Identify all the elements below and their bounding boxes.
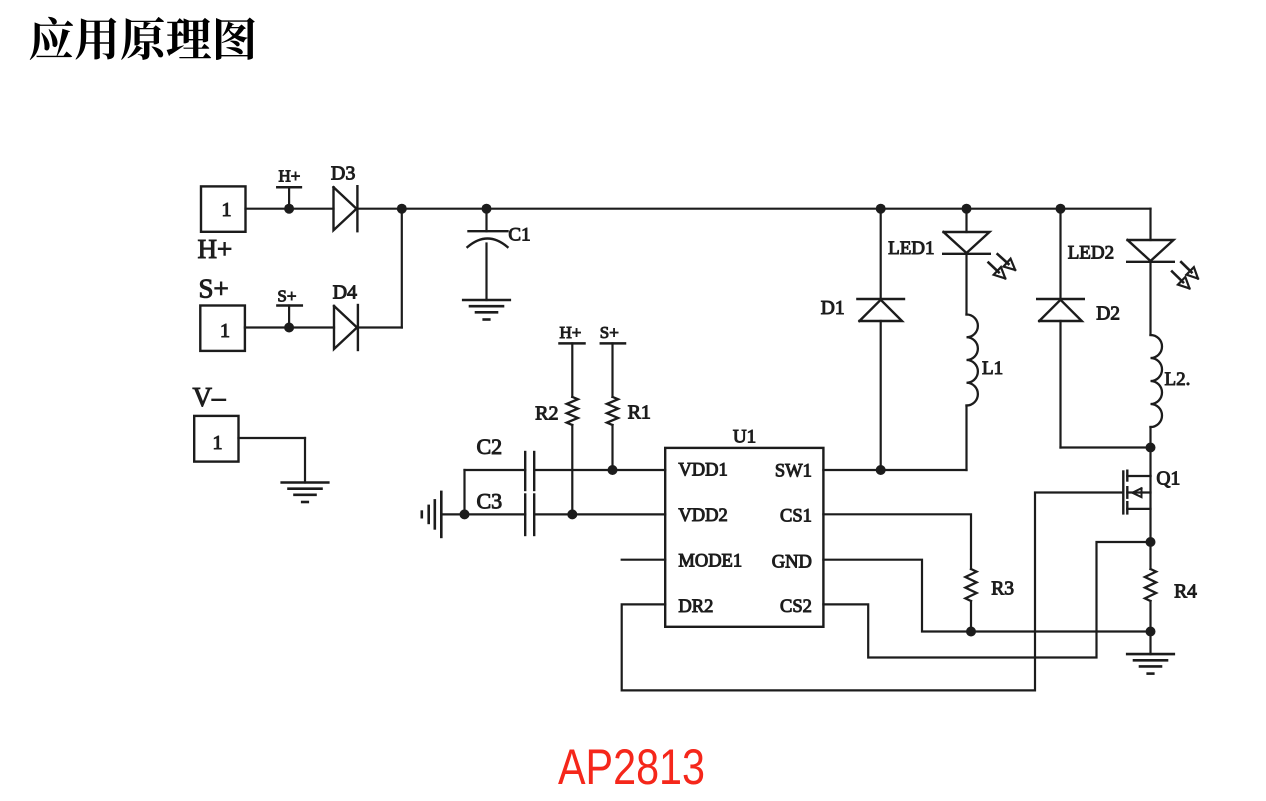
junction dot SW1/D1 — [876, 465, 886, 475]
wire gnd to C3 — [441, 513, 525, 515]
junction dot R3/GND rail — [966, 627, 976, 637]
svg-text:D2: D2 — [1096, 303, 1120, 324]
wire H+ box to D3 — [246, 208, 334, 210]
svg-text:CS2: CS2 — [780, 597, 812, 617]
net label H+ — [279, 166, 301, 185]
wire S+ box to D4 — [245, 326, 334, 328]
LED LED1 — [943, 232, 990, 254]
svg-text:S+: S+ — [600, 323, 619, 342]
svg-text:DR2: DR2 — [678, 597, 713, 617]
wire D4 to vertical — [359, 326, 402, 328]
svg-text:U1: U1 — [733, 427, 756, 448]
wire vertical D3/D4 join — [401, 209, 403, 328]
svg-text:1: 1 — [220, 320, 230, 342]
junction dot R1/VDD1 — [608, 465, 618, 475]
diode D4 — [334, 305, 358, 350]
label R1 — [628, 401, 651, 423]
capacitor C1 — [468, 209, 508, 300]
wire Q1 source lead — [1149, 476, 1151, 542]
wire L1 to SW1 — [965, 406, 967, 471]
wire D2 bottom lead — [1061, 321, 1151, 448]
svg-text:H+: H+ — [560, 323, 582, 342]
wire Q1 drain lead — [1127, 448, 1150, 477]
svg-text:L1: L1 — [982, 358, 1003, 379]
net tick H+ (R2) — [560, 343, 585, 397]
wire C2 to VDD1 — [534, 469, 665, 471]
junction dot LED1 top — [962, 204, 972, 214]
resistor R2 — [567, 397, 578, 425]
wire MODE1 stub — [622, 559, 666, 561]
svg-text:GND: GND — [772, 553, 812, 573]
wire D2 top lead — [1059, 209, 1061, 299]
svg-text:D1: D1 — [821, 298, 845, 319]
diode D3 — [334, 186, 358, 231]
wire D1 bottom lead — [880, 321, 882, 470]
pin label DR2 — [678, 597, 713, 617]
svg-text:CS1: CS1 — [780, 506, 812, 526]
pin label CS1 — [780, 506, 812, 526]
junction dot D2 top — [1056, 204, 1066, 214]
svg-text:1: 1 — [213, 432, 223, 454]
ground symbol bottom right — [1127, 654, 1174, 674]
wire C2 left leg — [465, 470, 526, 514]
wire top rail — [358, 208, 1151, 210]
label D3 — [331, 162, 355, 184]
svg-text:1: 1 — [222, 199, 232, 221]
svg-text:SW1: SW1 — [775, 462, 812, 482]
wire R4 bottom — [1149, 601, 1151, 632]
junction dot R2/VDD2 — [567, 509, 577, 519]
svg-text:R2: R2 — [535, 403, 558, 425]
pin label VDD2 — [678, 506, 727, 526]
capacitor C2 — [525, 452, 534, 490]
wire LED1 to L1 — [965, 254, 967, 315]
svg-text:H+: H+ — [279, 166, 301, 185]
net tick S+ (R1) — [601, 343, 625, 397]
wire L2 to node — [1149, 427, 1151, 448]
label D1 — [821, 298, 845, 319]
pin label MODE1 — [678, 552, 742, 572]
label R4 — [1174, 582, 1197, 603]
wire CS2 to Q1 source — [823, 542, 1150, 658]
svg-text:R1: R1 — [628, 401, 651, 423]
inductor L2 — [1151, 335, 1163, 427]
label C3 — [477, 489, 503, 514]
label R3 — [991, 579, 1014, 600]
connector pin 1 (S+) box — [200, 306, 245, 351]
svg-text:LED2: LED2 — [1068, 242, 1114, 263]
pin label SW1 — [775, 462, 812, 482]
label C2 — [477, 434, 503, 459]
resistor R1 — [607, 397, 618, 425]
pin label GND — [772, 553, 812, 573]
label S+ above connector — [199, 274, 229, 304]
label LED1 — [888, 238, 934, 259]
net tick S+ — [277, 306, 301, 328]
svg-text:V–: V– — [193, 382, 226, 412]
wire DR2 to Q1 gate — [622, 493, 1124, 691]
junction dot S+ net — [284, 323, 294, 333]
svg-text:H+: H+ — [198, 234, 233, 264]
junction dot C2/C3 left — [460, 509, 470, 519]
title text 应用原理图 — [30, 17, 255, 60]
label AP2813 — [558, 739, 705, 795]
pin label VDD1 — [678, 461, 727, 481]
resistor R4 — [1145, 569, 1156, 601]
wire V- to ground — [239, 438, 306, 483]
op-amp U1 box — [665, 448, 823, 627]
wire R1 to VDD1 line — [611, 425, 613, 470]
junction dot H+ net — [284, 204, 294, 214]
wire D1 top lead — [880, 209, 882, 299]
svg-text:MODE1: MODE1 — [678, 552, 742, 572]
wire SW1 — [823, 469, 966, 471]
net label H+ (R2) — [560, 323, 582, 342]
ground symbol at V- — [282, 483, 329, 503]
label LED2 — [1068, 242, 1114, 263]
label U1 — [733, 427, 756, 448]
inductor L1 — [967, 315, 978, 406]
svg-text:C2: C2 — [477, 434, 503, 459]
svg-text:C3: C3 — [477, 489, 503, 514]
transistor Q1 — [1123, 471, 1150, 514]
svg-text:S+: S+ — [277, 287, 296, 306]
svg-text:LED1: LED1 — [888, 238, 934, 259]
svg-text:Q1: Q1 — [1156, 469, 1180, 490]
label V- above connector — [193, 382, 226, 412]
wire to ground R4 — [1149, 632, 1151, 655]
wire GND to rail — [823, 560, 1150, 632]
ground symbol under C1 — [463, 300, 510, 320]
junction dot R4/GND rail — [1146, 627, 1156, 637]
net tick H+ — [277, 187, 301, 208]
LED LED2 — [1127, 240, 1174, 262]
junction dot L2/D2/Q1 — [1146, 443, 1156, 453]
diode D2 — [1037, 299, 1084, 321]
label L1 — [982, 358, 1003, 379]
connector pin 1 (H+) box — [201, 186, 246, 231]
label D4 — [333, 281, 357, 303]
svg-text:R3: R3 — [991, 579, 1014, 600]
svg-text:AP2813: AP2813 — [558, 739, 705, 795]
label Q1 — [1156, 469, 1180, 490]
capacitor C3 — [525, 495, 534, 536]
junction dot D3 output — [397, 204, 407, 214]
net label S+ — [277, 287, 296, 306]
label H+ under connector — [198, 234, 233, 264]
junction dot Q1 source — [1146, 537, 1156, 547]
ground symbol (signal, left) — [422, 492, 442, 537]
svg-text:VDD2: VDD2 — [678, 506, 727, 526]
wire R4 top — [1149, 542, 1151, 569]
pin label CS2 — [780, 597, 812, 617]
junction dot C1 top — [482, 204, 492, 214]
wire CS1 to R3 — [823, 514, 971, 569]
label R2 — [535, 403, 558, 425]
junction dot D1 top — [876, 204, 886, 214]
svg-text:L2.: L2. — [1165, 369, 1191, 390]
svg-text:C1: C1 — [508, 225, 530, 246]
light arrows LED1 — [989, 254, 1016, 278]
net label S+ (R1) — [600, 323, 619, 342]
diode D1 — [857, 299, 904, 321]
svg-text:D3: D3 — [331, 162, 355, 184]
label D2 — [1096, 303, 1120, 324]
connector pin 1 (V-) box — [194, 416, 238, 462]
light arrows LED2 — [1172, 262, 1198, 288]
svg-text:S+: S+ — [199, 274, 229, 304]
label C1 — [508, 225, 530, 246]
svg-text:VDD1: VDD1 — [678, 461, 727, 481]
wire C3 to VDD2 — [534, 513, 665, 515]
wire LED2 top lead — [1149, 209, 1151, 240]
wire LED2 to L2 — [1149, 262, 1151, 335]
label L2 — [1165, 369, 1191, 390]
wire LED1 top lead — [965, 209, 967, 232]
svg-text:D4: D4 — [333, 281, 357, 303]
resistor R3 — [965, 569, 976, 601]
svg-text:R4: R4 — [1174, 582, 1197, 603]
wire R2 to VDD2 line — [571, 425, 573, 514]
wire R3 bottom — [970, 601, 972, 632]
